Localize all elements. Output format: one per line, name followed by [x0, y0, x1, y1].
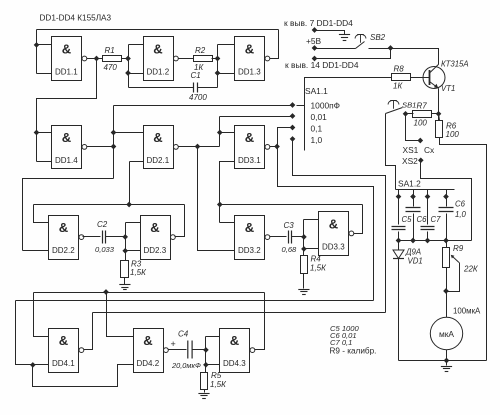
resistor R2 1K: [194, 46, 213, 72]
wire DD1.1 output loop to DD1.4 inputs: [37, 59, 97, 162]
wire R8 to VT1 base: [411, 77, 430, 79]
wire R2 to DD1.3 input node: [212, 58, 218, 60]
wire DD1.4 input 2: [37, 161, 52, 163]
contact SA1.1 position 1: [290, 103, 295, 108]
svg-text:КТ315А: КТ315А: [441, 60, 469, 69]
switch SB1 push button: [386, 101, 417, 114]
junction C7 bottom: [425, 238, 430, 243]
wire bus1 DD4.3 output rail: [34, 292, 265, 294]
NAND gate DD4.2: [134, 329, 169, 373]
wire DD1.3 input vertical: [217, 45, 219, 88]
svg-text:С6: С6: [455, 200, 466, 209]
wire DD1.3 output to top rail: [270, 30, 279, 59]
wire R9 wiper to bottom: [447, 263, 460, 292]
resistor R8 1K: [392, 65, 411, 91]
wire DD4.1 input 2: [33, 364, 49, 366]
resistor R5 1,5K: [201, 371, 228, 390]
svg-text:0,1: 0,1: [311, 124, 323, 134]
wire DD4.3 input 1: [206, 336, 220, 338]
junction SB1 right contact: [403, 111, 408, 116]
junction DD2.1 output: [195, 144, 200, 149]
wire position2 from DD2.1 output node: [220, 116, 293, 118]
wire DD3.3 input 2: [304, 248, 319, 250]
wire DD1.2 output to R2: [179, 58, 194, 60]
junction supply node after SB2: [388, 46, 393, 51]
contact SA1.2 position 3: [425, 194, 430, 199]
svg-text:С6: С6: [417, 215, 428, 224]
wire pin14 to supply node: [315, 49, 391, 59]
junction DD1.4 output: [111, 144, 116, 149]
NAND gate DD3.3: [319, 212, 354, 256]
svg-text:Д9А: Д9А: [405, 248, 421, 257]
junction DD1.3 input 2 node: [215, 71, 220, 76]
wire meter return rail: [399, 360, 487, 362]
wire XS2 to capacitor bus: [421, 161, 472, 241]
resistor R9 22K variable: [443, 241, 479, 274]
svg-text:к выв. 7 DD1-DD4: к выв. 7 DD1-DD4: [284, 18, 353, 28]
wire C3 to DD3.3 inputs: [292, 236, 304, 238]
svg-text:&: &: [245, 41, 254, 56]
wire +5V to SB2: [315, 48, 356, 50]
svg-text:1000пФ: 1000пФ: [311, 101, 341, 111]
svg-text:0,033: 0,033: [95, 245, 115, 254]
terminal pin14 node: [312, 56, 317, 61]
wire DD4.2 input 1: [107, 293, 134, 337]
resistor R1 470: [103, 46, 122, 72]
wire DD1.1 output to R1: [87, 58, 103, 60]
wire SA1.1 common bar to R8: [305, 78, 392, 151]
svg-text:&: &: [329, 216, 338, 231]
svg-text:+5В: +5В: [306, 36, 322, 46]
contact SA1.1 position 2: [290, 114, 295, 119]
svg-text:22К: 22К: [463, 265, 479, 274]
wire to jack XS1: [406, 114, 421, 141]
junction DD1.1 output node: [94, 56, 99, 61]
NAND gate DD3.1: [235, 126, 270, 169]
NAND gate DD2.2: [49, 216, 84, 260]
wire DD4.3 output to bus1: [255, 293, 265, 350]
wire C2 to DD2.3 inputs: [106, 236, 126, 238]
svg-text:С5: С5: [402, 215, 413, 224]
wire C4 to DD4.3 node: [193, 349, 206, 351]
svg-text:R1: R1: [105, 46, 115, 55]
svg-text:&: &: [230, 333, 239, 348]
junction R2 right node: [215, 56, 220, 61]
ground R3: [119, 285, 130, 290]
wire emitter node to R6: [439, 114, 440, 121]
wire R1 to DD1.2 input node: [122, 58, 129, 60]
junction DD3.1 input 1: [217, 130, 222, 135]
svg-text:R5: R5: [211, 371, 222, 380]
wire DD1.1 input 2: [37, 73, 52, 75]
NAND gate DD1.3: [235, 37, 270, 81]
terminal XS1: [418, 138, 423, 143]
terminal pin7 node: [312, 28, 317, 33]
svg-text:DD1.1: DD1.1: [55, 67, 78, 76]
NAND gate DD2.1: [144, 126, 179, 169]
svg-text:0,01: 0,01: [311, 112, 328, 122]
junction meter return node: [444, 358, 449, 363]
svg-text:C3: C3: [284, 221, 295, 230]
wire DD3.2 input 1: [220, 222, 235, 224]
capacitor C4 20,0uF electrolytic: [171, 330, 201, 371]
wire DD2.3 input 2: [126, 250, 141, 252]
junction DD4.3 input 2: [204, 362, 209, 367]
svg-text:100: 100: [414, 118, 428, 127]
wire DD2.1 output to DD3.2 input 2: [198, 147, 235, 251]
svg-text:DD1.2: DD1.2: [147, 67, 170, 76]
svg-text:4700: 4700: [189, 93, 207, 102]
svg-text:R4: R4: [311, 255, 322, 264]
junction DD3.1 output: [275, 144, 280, 149]
svg-text:&: &: [59, 333, 68, 348]
svg-text:XS1: XS1: [403, 145, 419, 155]
wire net A DD2.3 output rail: [34, 204, 185, 206]
svg-text:&: &: [245, 130, 254, 145]
wire DD2.2 input 2: [23, 250, 49, 252]
svg-text:R7: R7: [417, 101, 428, 110]
wire DD3.1 input 1 vertical: [219, 117, 221, 147]
junction C2 right: [123, 235, 128, 240]
NAND gate DD2.3: [141, 216, 176, 260]
svg-text:DD2.1: DD2.1: [147, 156, 170, 165]
svg-text:&: &: [153, 41, 162, 56]
wire SB2 to VT1 collector: [369, 49, 439, 65]
wire R9 to meter: [446, 268, 448, 318]
svg-text:SB2: SB2: [370, 33, 386, 42]
svg-text:&: &: [59, 220, 68, 235]
svg-text:DD1-DD4 К155ЛА3: DD1-DD4 К155ЛА3: [40, 14, 112, 23]
wire bus3 DD4.1 output rail: [93, 312, 386, 314]
contact SA1.1 position 3: [290, 125, 295, 130]
junction C6 bottom: [411, 238, 416, 243]
wire bus1 to DD4.1 input 1: [34, 293, 49, 337]
wire DD2.1 output: [179, 146, 220, 148]
meter PA1 100uA: [430, 317, 462, 349]
NAND gate DD1.1: [52, 37, 87, 81]
svg-text:DD2.2: DD2.2: [52, 246, 75, 255]
wire DD2.2 output to C2: [83, 236, 101, 238]
svg-text:R9 - калибр.: R9 - калибр.: [330, 346, 377, 355]
wire DD4.1 output up: [84, 313, 93, 350]
svg-text:1К: 1К: [393, 82, 403, 91]
svg-text:SA1.2: SA1.2: [398, 179, 421, 189]
wire DD4.3 input 2: [206, 364, 220, 366]
junction net B: [217, 202, 222, 207]
svg-text:&: &: [62, 41, 71, 56]
contact SA1.1 position 4: [290, 137, 295, 142]
svg-text:1,0: 1,0: [455, 210, 467, 219]
junction DD1.4 input node: [34, 130, 39, 135]
contact SA1.2 position 1: [396, 194, 401, 199]
transistor VT1 KT315A: [423, 60, 469, 94]
svg-text:VD1: VD1: [408, 257, 423, 266]
junction R9 wiper: [444, 289, 449, 294]
svg-text:1,5К: 1,5К: [210, 380, 227, 389]
resistor R7 100: [413, 101, 432, 127]
svg-text:R9: R9: [453, 244, 464, 253]
resistor R3 1,5K: [121, 260, 148, 278]
svg-text:SB1: SB1: [402, 101, 416, 110]
wire DD2.1 input 2: [130, 161, 144, 163]
terminal XS2: [418, 158, 423, 163]
svg-text:C1: C1: [191, 71, 201, 80]
wire DD1.3 input 2: [218, 73, 235, 75]
wire to ground: [446, 361, 448, 366]
wire R3 to ground: [124, 278, 126, 285]
wire C1 left lead: [129, 87, 194, 89]
wire DD3.3 output to net B: [354, 205, 363, 234]
svg-text:1,5К: 1,5К: [130, 268, 147, 277]
wire DD2.3 input vertical: [125, 223, 127, 261]
wire DD1.4 output vertical: [113, 106, 115, 179]
ground R4: [298, 290, 309, 295]
svg-text:&: &: [150, 220, 159, 235]
ground pin 7: [339, 35, 350, 41]
wire SA1.1 wiper position 1: [297, 105, 305, 107]
NAND gate DD1.2: [144, 37, 179, 81]
wire position1 from DD1.4 output node: [114, 105, 293, 107]
svg-text:к выв. 14 DD1-DD4: к выв. 14 DD1-DD4: [285, 60, 359, 70]
wire DD1.2 input 1: [129, 44, 144, 46]
wire DD3.1 input 1: [220, 132, 235, 134]
wire pin7 to ground: [315, 31, 345, 35]
svg-text:DD1.3: DD1.3: [238, 67, 261, 76]
svg-text:DD4.3: DD4.3: [223, 359, 246, 368]
wire DD3.3 input vertical: [303, 220, 305, 256]
svg-text:DD4.1: DD4.1: [52, 359, 75, 368]
wire DD1.1 input vertical: [36, 30, 38, 74]
wire DD4.2 output to C4: [169, 349, 187, 351]
svg-text:мкА: мкА: [439, 329, 454, 339]
NAND gate DD4.1: [49, 329, 84, 373]
capacitor C2 0,033: [95, 220, 115, 254]
svg-text:DD3.1: DD3.1: [238, 156, 261, 165]
svg-text:R2: R2: [195, 46, 206, 55]
wire DD1.4 output: [87, 146, 114, 148]
wire position3 from DD3.1 output: [278, 128, 293, 147]
resistor R4 1,5K: [301, 255, 328, 274]
wire DD1.3 input 1: [218, 44, 235, 46]
junction R1 right node: [126, 56, 131, 61]
wire DD1.2 input 2: [129, 73, 144, 75]
NAND gate DD3.2: [235, 216, 270, 260]
wire capacitor bottom bus: [399, 240, 472, 242]
capacitor C7 0,1: [421, 197, 442, 241]
svg-text:+: +: [171, 339, 176, 349]
svg-text:VT1: VT1: [441, 84, 455, 93]
wire position4 to bus3: [293, 139, 386, 313]
wire net B horizontal DD3.3 output: [220, 204, 363, 206]
svg-text:Сх: Сх: [424, 145, 435, 155]
wire DD2.3 input 1: [126, 222, 141, 224]
svg-text:20,0мкФ: 20,0мкФ: [171, 361, 201, 370]
junction DD1.1 input node: [34, 43, 39, 48]
wire R4 to ground: [303, 274, 305, 289]
svg-text:C4: C4: [178, 330, 189, 339]
svg-text:100мкА: 100мкА: [453, 307, 481, 316]
ground meter: [441, 367, 452, 372]
svg-text:DD2.3: DD2.3: [144, 246, 167, 255]
svg-text:С7: С7: [431, 215, 442, 224]
svg-text:&: &: [153, 130, 162, 145]
capacitor C3 0,68: [282, 221, 298, 254]
wire DD2.1 input 2 vertical: [129, 162, 131, 205]
junction C8 bottom: [444, 238, 449, 243]
wire bus2 from DD3.1 output: [16, 300, 374, 302]
wire DD3.1 input 2 to net B: [220, 162, 235, 223]
wire DD2.1 input 1: [114, 132, 144, 134]
junction DD2.3 input 2: [123, 248, 128, 253]
junction C4 right: [204, 348, 209, 353]
svg-text:DD4.2: DD4.2: [137, 359, 160, 368]
wire top feedback rail DD1.3 output to DD1.1 inputs: [37, 29, 279, 31]
wire DD3.1 output: [270, 146, 278, 148]
capacitor C6 0,01: [406, 197, 428, 241]
terminal +5V node: [312, 46, 317, 51]
wire R7 to emitter node: [432, 113, 439, 115]
wire DD2.3 output to net A: [175, 205, 185, 237]
wire SA1.2 contact 3 stub: [427, 190, 429, 197]
svg-text:1,5К: 1,5К: [310, 264, 327, 273]
svg-text:C2: C2: [97, 220, 108, 229]
NAND gate DD4.3: [220, 329, 255, 373]
svg-text:1,0: 1,0: [311, 135, 323, 145]
wire SA1.2 contact 1 stub: [398, 190, 400, 197]
junction C3 right: [302, 235, 307, 240]
wire SA1.2 contact 2 stub: [413, 190, 415, 197]
wire VT1 emitter down: [438, 89, 440, 121]
contact SA1.2 position 4: [444, 194, 449, 199]
capacitor C8 1,0: [439, 197, 467, 241]
svg-text:DD3.3: DD3.3: [322, 242, 345, 251]
svg-text:100: 100: [446, 130, 460, 139]
junction DD3.3 input 2: [302, 247, 307, 252]
wire DD1.1 input 1: [37, 44, 52, 46]
wire SA1.2 common bar: [396, 189, 455, 191]
junction DD2.1 input 1: [111, 130, 116, 135]
junction bus1 to DD4.2 input 1: [104, 290, 109, 295]
wire R5 to ground: [204, 390, 206, 393]
wire C1 right lead: [198, 87, 218, 89]
capacitor C1 4700: [189, 71, 207, 102]
wire bus2 to DD4.1 input 2: [16, 301, 33, 365]
svg-text:&: &: [143, 333, 152, 348]
svg-text:0,68: 0,68: [282, 245, 298, 254]
ground R5: [198, 394, 209, 399]
junction DD1.2 input 2 node: [126, 71, 131, 76]
wire loop to DD2.2 input 2: [23, 179, 114, 251]
svg-text:&: &: [62, 130, 71, 145]
resistor R6 100: [436, 121, 460, 140]
wire DD3.2 output to C3: [270, 236, 287, 238]
junction emitter node: [436, 111, 441, 116]
svg-text:470: 470: [104, 63, 118, 72]
junction C5 bottom: [396, 238, 401, 243]
svg-text:SA1.1: SA1.1: [305, 86, 328, 96]
svg-text:DD3.2: DD3.2: [238, 246, 261, 255]
contact SA1.2 position 2: [411, 194, 416, 199]
wire DD4.2 input 2 loop: [33, 365, 134, 387]
junction DD4.1 input 2: [30, 363, 35, 368]
wire DD1.2 input vertical: [128, 45, 130, 88]
diode VD1 D9A: [393, 241, 423, 266]
wire meter minus: [446, 350, 448, 361]
capacitor C5 1000: [392, 197, 413, 241]
svg-text:DD1.4: DD1.4: [55, 156, 78, 165]
wire DD3.1 output to bus2: [278, 147, 374, 301]
switch SB2 push button: [355, 33, 386, 49]
wire SB1 to SA1.2 common: [386, 114, 396, 190]
wire net A to DD2.2 input 1: [34, 205, 49, 223]
svg-text:&: &: [245, 220, 254, 235]
svg-text:R8: R8: [394, 65, 405, 74]
wire DD4.3 input vertical: [205, 337, 207, 373]
wire SB1 contact to R7: [406, 113, 414, 115]
wire DD3.3 input 1: [304, 219, 319, 221]
junction net A to DD2.1 input 2: [127, 202, 132, 207]
NAND gate DD1.4: [52, 126, 87, 169]
wire SA1.2 contact 4 stub: [446, 190, 448, 197]
wire DD1.4 input 1: [37, 132, 52, 134]
wire VD1 cathode to meter return: [398, 259, 400, 361]
wire R6 to meter return rail: [440, 138, 487, 361]
svg-text:XS2: XS2: [402, 156, 418, 166]
